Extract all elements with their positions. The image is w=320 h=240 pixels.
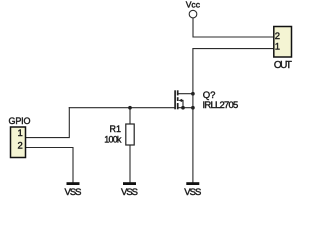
svg-text:GPIO: GPIO <box>9 116 31 126</box>
svg-text:2: 2 <box>275 31 280 42</box>
svg-text:Vcc: Vcc <box>186 0 201 9</box>
svg-text:100k: 100k <box>104 135 122 145</box>
svg-text:OUT: OUT <box>274 60 292 71</box>
svg-text:VSS: VSS <box>65 187 82 196</box>
svg-text:IRLL2705: IRLL2705 <box>203 100 239 111</box>
svg-text:VSS: VSS <box>184 187 201 196</box>
svg-text:1: 1 <box>275 42 280 53</box>
svg-text:2: 2 <box>18 140 23 151</box>
svg-text:R1: R1 <box>109 124 121 134</box>
svg-text:Q?: Q? <box>203 90 216 101</box>
svg-text:1: 1 <box>18 128 23 139</box>
svg-text:VSS: VSS <box>121 187 138 196</box>
